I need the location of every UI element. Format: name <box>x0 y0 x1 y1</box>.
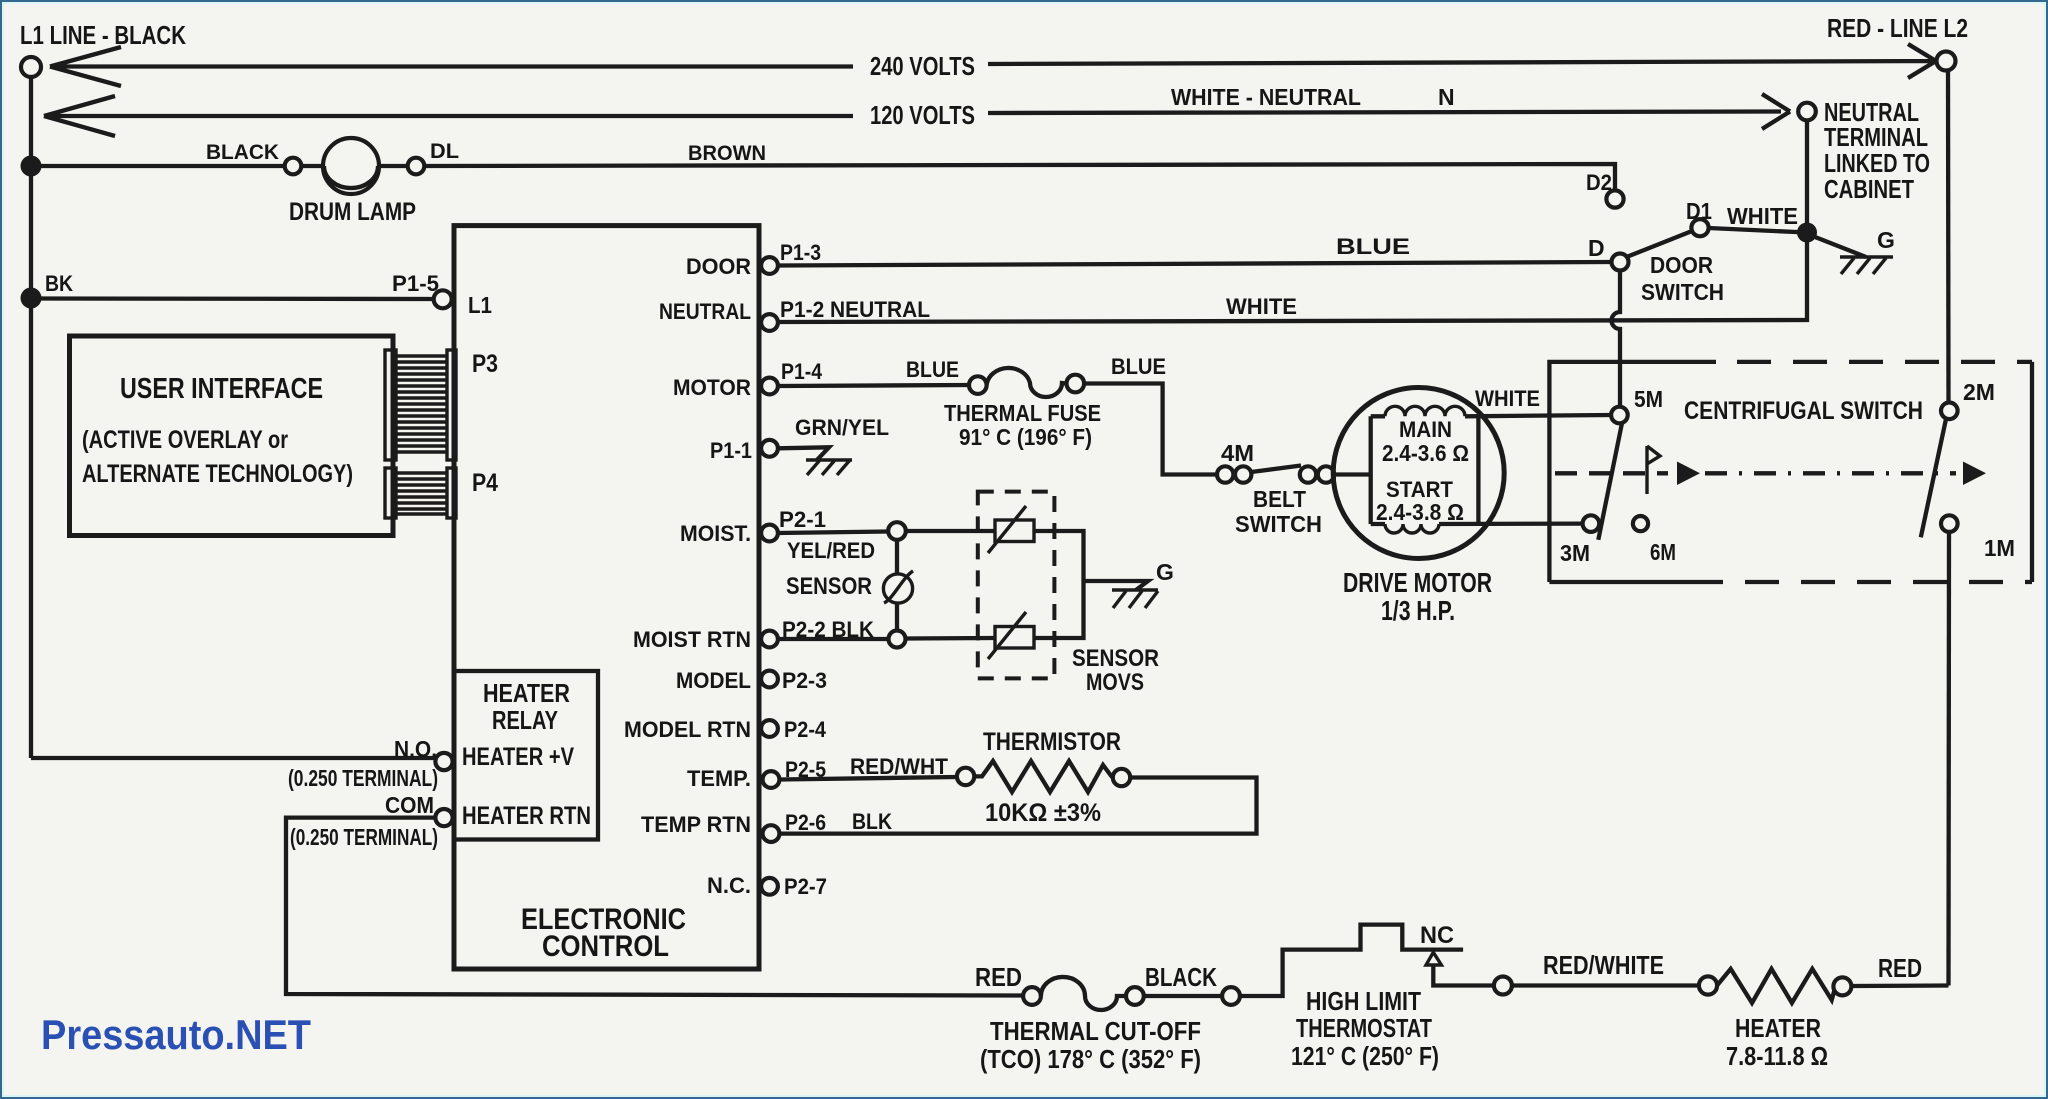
wire start to 3M <box>1371 521 1583 526</box>
svg-text:1/3 H.P.: 1/3 H.P. <box>1381 595 1455 626</box>
svg-text:BLK: BLK <box>852 809 892 834</box>
wire MOV outputs to ground rail <box>1034 531 1084 638</box>
heater resistor zigzag <box>1717 969 1835 1003</box>
wire P1-1 to ground <box>778 447 829 461</box>
svg-text:P2-3: P2-3 <box>782 668 827 693</box>
svg-text:SWITCH: SWITCH <box>1235 511 1322 537</box>
actuator flag symbol <box>1647 446 1660 494</box>
svg-text:Pressauto.NET: Pressauto.NET <box>41 1011 311 1058</box>
svg-text:CENTRIFUGAL SWITCH: CENTRIFUGAL SWITCH <box>1684 397 1923 425</box>
svg-text:THERMOSTAT: THERMOSTAT <box>1296 1013 1432 1043</box>
sensor rotating contact <box>895 540 899 574</box>
thermistor resistor zigzag <box>974 761 1112 792</box>
terminal thermistor right <box>1113 769 1130 786</box>
pin P2-2 terminal <box>761 631 778 648</box>
svg-text:10KΩ ±3%: 10KΩ ±3% <box>985 799 1101 827</box>
wire P2-5 to thermistor <box>780 777 958 780</box>
wire thermistor loop back to P2-6 <box>780 778 1257 834</box>
wire COM loop to bottom rail <box>286 818 1024 996</box>
svg-text:DOOR: DOOR <box>1650 252 1713 278</box>
terminal sensor bottom <box>889 631 906 648</box>
svg-text:G: G <box>1877 227 1895 253</box>
door switch blade D to D1 <box>1627 231 1693 257</box>
svg-text:WHITE: WHITE <box>1727 203 1798 229</box>
wire to ground G <box>1810 235 1866 257</box>
svg-text:BLACK: BLACK <box>206 141 279 164</box>
svg-text:USER INTERFACE: USER INTERFACE <box>120 373 323 405</box>
NC contact arrow <box>1426 952 1441 965</box>
wire D down to 5M with hop over white wire <box>1612 271 1621 407</box>
svg-text:P1-4: P1-4 <box>781 359 823 384</box>
svg-text:WHITE: WHITE <box>1226 294 1297 319</box>
svg-text:DRIVE MOTOR: DRIVE MOTOR <box>1343 567 1492 598</box>
wire heater to L2 rail <box>1851 983 1948 988</box>
svg-text:RED: RED <box>1878 953 1922 983</box>
terminal thermal fuse left <box>969 376 987 394</box>
wire BK to P1-5 <box>31 296 433 301</box>
terminal P1-5 <box>434 290 452 308</box>
svg-text:GRN/YEL: GRN/YEL <box>795 415 889 440</box>
wire DOOR blue P1-3 to D <box>778 262 1611 266</box>
thermal cut-off fuse element <box>1041 977 1126 1010</box>
svg-text:N: N <box>1438 84 1455 110</box>
svg-text:G: G <box>1156 559 1174 585</box>
wire RED/WHITE to heater <box>1512 983 1699 987</box>
svg-text:91° C (196° F): 91° C (196° F) <box>959 424 1092 450</box>
pin P2-5 terminal <box>763 771 780 788</box>
wire P2-1 to sensor node <box>778 532 888 534</box>
wire fuse to belt switch <box>1084 384 1217 475</box>
terminal TCO right <box>1126 987 1144 1005</box>
svg-text:TEMP RTN: TEMP RTN <box>641 812 751 837</box>
svg-text:(0.250 TERMINAL): (0.250 TERMINAL) <box>290 824 438 850</box>
connector P4 ribbon cable <box>385 468 456 518</box>
wire N.O. from left bus <box>31 756 435 760</box>
svg-text:MOIST RTN: MOIST RTN <box>633 627 751 652</box>
motor winding frame <box>1371 416 1479 524</box>
svg-text:HEATER +V: HEATER +V <box>462 743 574 771</box>
pin P1-2 terminal <box>761 314 778 331</box>
wire 120V right segment with arrowhead <box>988 94 1790 129</box>
centrifugal switch dashed box <box>1549 362 2032 582</box>
svg-text:RED: RED <box>975 962 1022 992</box>
svg-text:P1-2 NEUTRAL: P1-2 NEUTRAL <box>780 297 930 322</box>
drum lamp DL <box>323 138 379 194</box>
svg-text:RED/WHITE: RED/WHITE <box>1543 950 1664 980</box>
terminal 6M <box>1633 516 1648 531</box>
main winding coil <box>1385 406 1465 416</box>
svg-text:COM: COM <box>385 792 434 818</box>
pin P2-4 terminal <box>761 720 778 737</box>
terminal 1M <box>1941 515 1958 532</box>
terminal high limit left <box>1222 987 1240 1005</box>
svg-text:(ACTIVE OVERLAY or: (ACTIVE OVERLAY or <box>82 426 288 454</box>
wire left bus vertical L1 down <box>29 77 33 758</box>
wire L2 vertical top to 2M <box>1946 70 1951 403</box>
svg-text:DOOR: DOOR <box>686 254 751 279</box>
svg-text:WHITE: WHITE <box>1475 386 1540 411</box>
svg-text:P2-4: P2-4 <box>784 717 827 742</box>
terminal high limit right <box>1494 977 1512 995</box>
high limit thermostat step symbol <box>1240 925 1463 996</box>
belt switch blade <box>1251 466 1301 473</box>
svg-text:7.8-11.8 Ω: 7.8-11.8 Ω <box>1726 1041 1828 1071</box>
belt switch terminals left pair <box>1217 466 1233 482</box>
svg-text:2.4-3.8 Ω: 2.4-3.8 Ω <box>1376 499 1464 525</box>
pin P1-4 terminal <box>761 378 778 395</box>
svg-text:MODEL RTN: MODEL RTN <box>624 717 751 742</box>
wire main to 5M WHITE <box>1371 415 1611 416</box>
wire into MOV box bottom <box>906 636 996 641</box>
heater relay box <box>454 671 598 840</box>
svg-text:P4: P4 <box>472 469 498 497</box>
wire BROWN <box>424 164 1615 190</box>
svg-text:(0.250 TERMINAL): (0.250 TERMINAL) <box>288 765 438 791</box>
svg-text:BROWN: BROWN <box>688 142 766 165</box>
terminal TCO left <box>1023 987 1041 1005</box>
wire NEUTRAL white P1-2 to junction <box>778 238 1807 322</box>
svg-text:D2: D2 <box>1586 170 1612 195</box>
svg-text:L1 LINE - BLACK: L1 LINE - BLACK <box>20 20 186 50</box>
ground P1-1 symbol <box>806 460 852 475</box>
node junction dot white/ground <box>1797 223 1817 243</box>
terminal heater left <box>1699 976 1717 994</box>
svg-text:P1-1: P1-1 <box>710 438 752 463</box>
svg-text:SENSOR: SENSOR <box>786 573 872 600</box>
svg-text:SWITCH: SWITCH <box>1641 279 1724 305</box>
terminal D door switch <box>1612 254 1629 271</box>
svg-text:NC: NC <box>1420 922 1454 949</box>
svg-text:DRUM LAMP: DRUM LAMP <box>289 198 416 226</box>
terminal COM <box>435 809 452 826</box>
switch blade 5M-3M <box>1598 423 1622 540</box>
electronic control box <box>454 226 759 969</box>
pin P2-7 terminal <box>761 878 778 895</box>
terminal N.O. <box>435 753 452 770</box>
switch blade 2M-1M <box>1921 419 1946 537</box>
svg-text:HEATER: HEATER <box>483 678 570 708</box>
svg-text:BELT: BELT <box>1253 486 1306 512</box>
terminal D1 <box>1691 219 1708 236</box>
user interface box <box>70 336 394 536</box>
pin P2-3 terminal <box>761 671 778 688</box>
pin P2-6 terminal <box>763 825 780 842</box>
thermal fuse element <box>987 368 1067 397</box>
pin P2-1 terminal <box>761 525 778 542</box>
svg-text:P1-5: P1-5 <box>392 271 439 296</box>
svg-text:D: D <box>1588 235 1605 261</box>
svg-text:HEATER RTN: HEATER RTN <box>462 802 591 830</box>
svg-text:P2-7: P2-7 <box>784 874 827 899</box>
sensor MOVs dashed box <box>978 492 1055 679</box>
svg-text:4M: 4M <box>1221 440 1254 466</box>
node junction dot black wire <box>21 156 42 177</box>
drive motor circle <box>1333 388 1504 559</box>
terminal 3M <box>1583 515 1600 532</box>
svg-text:BLACK: BLACK <box>1145 962 1217 992</box>
pin P1-1 terminal <box>761 440 778 457</box>
svg-text:THERMAL FUSE: THERMAL FUSE <box>944 400 1101 426</box>
wire P2-2 to sensor node <box>778 637 888 641</box>
dash-dot actuator line <box>1555 471 1668 475</box>
svg-text:3M: 3M <box>1560 540 1590 566</box>
ground G symbol <box>1840 257 1893 274</box>
wire belt switch to motor <box>1334 472 1371 476</box>
wire TCO to high limit <box>1144 994 1222 998</box>
svg-text:MAIN: MAIN <box>1399 417 1452 442</box>
svg-text:THERMAL CUT-OFF: THERMAL CUT-OFF <box>990 1016 1201 1046</box>
wire MOTOR P1-4 to thermal fuse <box>778 385 969 386</box>
svg-text:6M: 6M <box>1650 539 1676 565</box>
svg-text:RELAY: RELAY <box>492 705 558 735</box>
svg-text:DL: DL <box>430 140 459 163</box>
terminal 5M <box>1611 407 1628 424</box>
ground sensor symbol <box>1112 590 1158 608</box>
svg-text:MODEL: MODEL <box>676 668 751 693</box>
svg-text:1M: 1M <box>1984 535 2015 561</box>
wire 1M down to heater rail <box>1946 532 1951 986</box>
svg-text:BLUE: BLUE <box>1336 234 1410 259</box>
terminal thermal fuse right <box>1067 375 1085 393</box>
svg-text:120 VOLTS: 120 VOLTS <box>870 100 975 130</box>
arrowhead actuator 1 <box>1677 462 1700 486</box>
MOV varistor 1 <box>995 520 1034 542</box>
svg-text:MOIST.: MOIST. <box>680 521 751 546</box>
connector P3 ribbon cable <box>385 350 456 460</box>
svg-text:240 VOLTS: 240 VOLTS <box>870 51 975 81</box>
svg-text:BK: BK <box>45 271 73 296</box>
svg-text:CABINET: CABINET <box>1824 174 1914 204</box>
terminal thermistor left <box>957 768 974 785</box>
svg-text:ALTERNATE TECHNOLOGY): ALTERNATE TECHNOLOGY) <box>82 460 353 488</box>
svg-text:RED - LINE L2: RED - LINE L2 <box>1827 13 1968 43</box>
svg-text:MOTOR: MOTOR <box>673 375 751 400</box>
svg-text:THERMISTOR: THERMISTOR <box>983 728 1121 756</box>
MOV varistor 2 <box>995 627 1034 649</box>
node junction dot BK <box>21 288 42 309</box>
wire to sensor ground <box>1084 581 1149 590</box>
svg-text:121° C (250° F): 121° C (250° F) <box>1291 1041 1439 1071</box>
terminal 2M <box>1941 403 1958 420</box>
svg-text:(TCO) 178° C (352° F): (TCO) 178° C (352° F) <box>980 1044 1201 1074</box>
svg-text:HEATER: HEATER <box>1735 1013 1821 1043</box>
svg-text:2M: 2M <box>1963 379 1995 405</box>
pin P1-3 terminal <box>761 257 778 274</box>
svg-text:P3: P3 <box>472 350 498 378</box>
svg-text:TEMP.: TEMP. <box>687 766 751 791</box>
svg-text:CONTROL: CONTROL <box>542 930 669 963</box>
wire 240V left segment with arrowhead <box>50 47 853 86</box>
arrowhead actuator 2 <box>1963 462 1986 486</box>
start winding coil <box>1385 524 1439 533</box>
terminal D2 <box>1606 190 1623 207</box>
svg-text:N.O.: N.O. <box>394 736 437 762</box>
svg-text:WHITE - NEUTRAL: WHITE - NEUTRAL <box>1171 84 1361 110</box>
svg-text:D1: D1 <box>1686 198 1712 224</box>
svg-text:MOVS: MOVS <box>1086 669 1144 696</box>
svg-text:P2-6: P2-6 <box>785 810 826 835</box>
svg-text:P1-3: P1-3 <box>780 240 821 265</box>
wire BLACK to drum lamp <box>31 164 285 168</box>
svg-text:P2-1: P2-1 <box>779 507 826 532</box>
svg-text:5M: 5M <box>1634 386 1663 412</box>
svg-text:2.4-3.6 Ω: 2.4-3.6 Ω <box>1382 440 1469 466</box>
svg-text:YEL/RED: YEL/RED <box>787 538 875 563</box>
svg-text:N.C.: N.C. <box>707 873 751 898</box>
wire 120V left segment with arrowhead <box>44 96 853 136</box>
terminal sensor top <box>888 522 906 540</box>
svg-text:HIGH LIMIT: HIGH LIMIT <box>1306 986 1421 1016</box>
wire 240V right segment with arrowhead <box>988 44 1936 78</box>
svg-text:BLUE: BLUE <box>906 357 959 382</box>
terminal L2 <box>1937 52 1956 71</box>
wire into MOV box top <box>906 529 995 533</box>
terminal drum lamp right <box>408 158 425 175</box>
svg-text:BLUE: BLUE <box>1111 354 1166 379</box>
wire D1 to junction WHITE <box>1709 228 1807 233</box>
terminal heater right <box>1833 977 1851 995</box>
terminal drum lamp left <box>285 158 302 175</box>
terminal neutral <box>1798 103 1816 121</box>
belt switch terminals right pair <box>1300 466 1316 482</box>
wire neutral terminal down to junction <box>1805 120 1809 228</box>
svg-text:L1: L1 <box>468 292 492 318</box>
svg-text:SENSOR: SENSOR <box>1072 645 1159 672</box>
terminal L1 <box>21 57 41 77</box>
svg-text:NEUTRAL: NEUTRAL <box>659 299 751 324</box>
